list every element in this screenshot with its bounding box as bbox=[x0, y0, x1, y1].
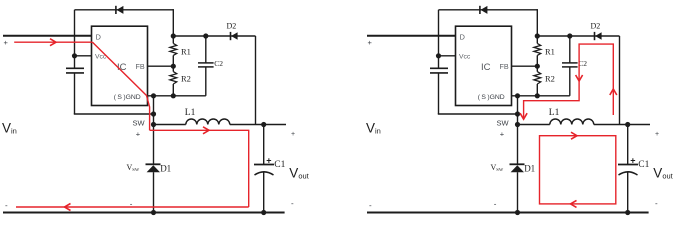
svg-text:+: + bbox=[136, 130, 141, 139]
svg-text:C1: C1 bbox=[638, 160, 649, 170]
wire FB (left) bbox=[148, 65, 174, 67]
wire IC ground rail (right) bbox=[512, 95, 570, 97]
wire ground return to SW node (left) bbox=[74, 113, 154, 115]
wire input branch vertical (right) bbox=[438, 10, 440, 69]
wire Cin lower lead (right) bbox=[438, 73, 440, 114]
svg-text:D2: D2 bbox=[227, 22, 237, 31]
svg-text:C2: C2 bbox=[214, 59, 223, 68]
diode internal body diode (right) bbox=[480, 6, 488, 14]
svg-text:FB: FB bbox=[500, 62, 509, 71]
op-amp IC U1 regulator box (left) bbox=[92, 26, 148, 105]
capacitor Cin input bypass (left) bbox=[66, 68, 84, 73]
svg-text:L1: L1 bbox=[185, 108, 196, 118]
svg-text:+: + bbox=[630, 156, 635, 166]
svg-text:+: + bbox=[266, 156, 271, 166]
svg-text:D2: D2 bbox=[591, 22, 601, 31]
wire current arrow down through C2 branch (red, right) bbox=[576, 75, 583, 81]
resistor R2 (left) bbox=[170, 66, 177, 96]
node C1 bottom on rail (left) bbox=[261, 210, 266, 215]
wire current path output up through D2 branch (red, right) bbox=[524, 44, 614, 119]
wire freewheel arrow bottom (red, right) bbox=[571, 200, 577, 207]
wire top loop (right) bbox=[439, 9, 538, 36]
wire input rail (right) bbox=[367, 35, 456, 37]
node C1 bottom on rail (right) bbox=[625, 210, 630, 215]
node C1 top junction (left) bbox=[261, 122, 266, 127]
wire bottom ground rail (right) bbox=[367, 212, 649, 214]
resistor R1 (left) bbox=[170, 36, 177, 66]
capacitor C1 output (left) bbox=[254, 125, 274, 213]
wire freewheel arrow top (red, right) bbox=[571, 132, 577, 139]
inductor L1 (left) bbox=[186, 119, 230, 125]
svg-text:L1: L1 bbox=[549, 108, 560, 118]
svg-text:-: - bbox=[291, 199, 294, 208]
wire current path input to D pin (red, left) bbox=[14, 41, 92, 43]
node D1 anode on rail (left) bbox=[151, 210, 156, 215]
svg-text:-: - bbox=[5, 201, 8, 210]
svg-text:+: + bbox=[368, 38, 373, 47]
svg-text:( S )GND: ( S )GND bbox=[478, 94, 505, 101]
wire boost rail to D2 (right) bbox=[537, 35, 619, 37]
diode internal body diode (left) bbox=[116, 6, 124, 14]
svg-text:SW: SW bbox=[133, 119, 146, 128]
capacitor C1 output (right) bbox=[618, 125, 638, 213]
node SW (right) bbox=[515, 122, 520, 127]
svg-text:( S )GND: ( S )GND bbox=[114, 94, 141, 101]
svg-text:-: - bbox=[494, 199, 497, 208]
capacitor C2 (left) bbox=[198, 36, 214, 96]
wire input branch vertical (left) bbox=[74, 10, 76, 69]
node C1 top junction (right) bbox=[625, 122, 630, 127]
wire output rail SW to L1 (left) bbox=[154, 124, 186, 126]
wire Vcc feed (left) bbox=[75, 55, 92, 57]
svg-text:+: + bbox=[4, 38, 9, 47]
diode D2 (right) bbox=[595, 32, 602, 40]
node Vcc junction (right) bbox=[436, 53, 441, 58]
wire current return rail (red, left) bbox=[16, 206, 249, 208]
wire output rail L1 to terminal (right) bbox=[594, 124, 650, 126]
node R1 top junction (right) bbox=[535, 33, 540, 38]
wire current arrow toward output (red, left) bbox=[203, 127, 209, 134]
wire output drop from D2 (right) bbox=[619, 36, 621, 125]
svg-text:IC: IC bbox=[481, 62, 491, 73]
wire top loop (left) bbox=[75, 9, 174, 36]
capacitor Cin input bypass (right) bbox=[430, 68, 448, 73]
wire current arrow return (red, left) bbox=[65, 204, 71, 211]
svg-text:D1: D1 bbox=[160, 164, 171, 174]
wire bottom ground rail (left) bbox=[3, 212, 285, 214]
op-amp IC U1 regulator box (right) bbox=[456, 26, 512, 105]
wire Vcc feed (right) bbox=[439, 55, 456, 57]
svg-text:+: + bbox=[655, 131, 659, 138]
wire IC ground rail (left) bbox=[148, 95, 206, 97]
node D1 anode on rail (right) bbox=[515, 210, 520, 215]
svg-text:R1: R1 bbox=[545, 46, 555, 56]
wire SW vertical / D1 branch (right) bbox=[517, 96, 519, 213]
node ground-return / SW-line junction (right) bbox=[515, 111, 520, 116]
wire ground return to SW node (right) bbox=[438, 113, 518, 115]
svg-text:D: D bbox=[460, 32, 466, 41]
node GND junction on SW line (left) bbox=[151, 93, 156, 98]
wire FB (right) bbox=[512, 65, 538, 67]
wire output rail L1 to terminal (left) bbox=[230, 124, 286, 126]
capacitor C2 (right) bbox=[562, 36, 578, 96]
wire current path SW to output node (red, left) bbox=[150, 130, 249, 207]
svg-text:FB: FB bbox=[136, 62, 145, 71]
node C2 top junction (left) bbox=[203, 33, 208, 38]
wire Cin lower lead (left) bbox=[74, 73, 76, 114]
node FB junction (right) bbox=[535, 64, 540, 69]
node ground-return / SW-line junction (left) bbox=[151, 111, 156, 116]
node SW (left) bbox=[151, 122, 156, 127]
diode D2 (left) bbox=[231, 32, 238, 40]
inductor L1 (right) bbox=[550, 119, 594, 125]
svg-text:Vcc: Vcc bbox=[459, 54, 471, 61]
node GND junction on SW line (right) bbox=[515, 93, 520, 98]
svg-text:-: - bbox=[655, 199, 658, 208]
wire SW vertical / D1 branch (left) bbox=[153, 96, 155, 213]
node R1 top junction (left) bbox=[171, 33, 176, 38]
diode D1 catch diode (right) bbox=[510, 164, 525, 172]
wire boost rail to D2 (left) bbox=[173, 35, 255, 37]
wire input rail (left) bbox=[3, 35, 92, 37]
svg-text:D: D bbox=[96, 32, 102, 41]
wire current arrow into D (red, left) bbox=[50, 39, 56, 46]
wire current arrow up through output drop (red, right) bbox=[610, 89, 617, 95]
node Vcc junction (left) bbox=[72, 53, 77, 58]
svg-text:-: - bbox=[369, 201, 372, 210]
svg-text:SW: SW bbox=[497, 119, 510, 128]
wire current arrow into SW node (red, right) bbox=[520, 113, 527, 119]
diode D1 catch diode (left) bbox=[146, 164, 161, 172]
node R2 bottom junction (right) bbox=[535, 93, 540, 98]
node FB junction (left) bbox=[171, 64, 176, 69]
svg-text:C1: C1 bbox=[274, 160, 285, 170]
wire freewheel loop L1-C1-D1 (red, right) bbox=[540, 136, 616, 204]
svg-text:R2: R2 bbox=[181, 73, 191, 83]
wire output drop from D2 (left) bbox=[255, 36, 257, 125]
svg-text:D1: D1 bbox=[524, 164, 535, 174]
wire current path through IC switch D to SW (red, left) bbox=[93, 42, 150, 130]
resistor R2 (right) bbox=[534, 66, 541, 96]
wire output rail SW to L1 (right) bbox=[518, 124, 550, 126]
node C2 top junction (right) bbox=[567, 33, 572, 38]
svg-text:+: + bbox=[291, 131, 295, 138]
resistor R1 (right) bbox=[534, 36, 541, 66]
svg-text:+: + bbox=[500, 130, 505, 139]
svg-text:R1: R1 bbox=[181, 46, 191, 56]
node R2 bottom junction (left) bbox=[171, 93, 176, 98]
svg-text:R2: R2 bbox=[545, 73, 555, 83]
